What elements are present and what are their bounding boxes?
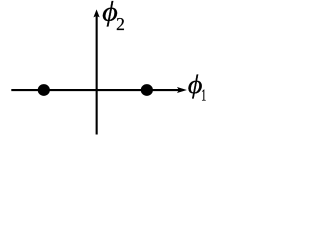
svg-text:1: 1	[201, 86, 206, 104]
svg-text:2: 2	[116, 14, 125, 34]
